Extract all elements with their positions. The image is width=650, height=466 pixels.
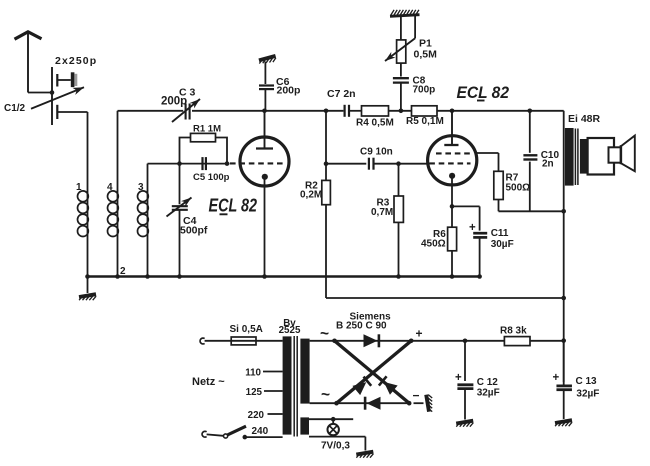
svg-text:7V/0,3: 7V/0,3 (321, 440, 350, 451)
svg-text:0,7M: 0,7M (371, 207, 393, 218)
svg-text:0,2M: 0,2M (300, 190, 322, 201)
svg-text:C1/2: C1/2 (4, 103, 26, 114)
svg-text:+: + (469, 222, 476, 234)
svg-text:200p: 200p (277, 85, 301, 97)
svg-text:32µF: 32µF (477, 388, 500, 399)
svg-text:0,5M: 0,5M (414, 49, 438, 61)
svg-text:Ei 48R: Ei 48R (568, 113, 601, 125)
svg-text:R1 1M: R1 1M (193, 124, 221, 135)
svg-text:~: ~ (320, 326, 329, 343)
svg-text:2525: 2525 (279, 325, 301, 336)
svg-text:1: 1 (76, 182, 82, 193)
svg-text:32µF: 32µF (576, 389, 599, 400)
svg-text:B 250 C 90: B 250 C 90 (336, 320, 387, 331)
svg-text:R4 0,5M: R4 0,5M (356, 118, 394, 129)
svg-text:~: ~ (321, 387, 330, 404)
svg-text:220: 220 (248, 410, 265, 421)
svg-text:+: + (455, 372, 462, 384)
svg-text:ECL 82: ECL 82 (457, 83, 510, 102)
svg-text:C 13: C 13 (576, 376, 598, 387)
svg-text:−: − (413, 389, 420, 403)
svg-text:700p: 700p (413, 85, 436, 96)
svg-text:Si 0,5A: Si 0,5A (230, 324, 263, 335)
svg-text:Netz ~: Netz ~ (192, 376, 225, 388)
svg-text:C7 2n: C7 2n (327, 88, 356, 100)
svg-text:4: 4 (107, 182, 113, 193)
svg-text:C5 100p: C5 100p (193, 172, 230, 183)
svg-text:500Ω: 500Ω (506, 182, 531, 193)
svg-text:+: + (416, 327, 423, 341)
svg-text:R8 3k: R8 3k (500, 326, 527, 337)
svg-text:500pf: 500pf (180, 225, 208, 237)
svg-text:R5 0,1M: R5 0,1M (406, 116, 444, 127)
svg-text:2n: 2n (542, 159, 554, 170)
svg-text:30µF: 30µF (491, 239, 514, 250)
svg-text:C 12: C 12 (477, 377, 499, 388)
svg-text:2x250p: 2x250p (55, 55, 97, 67)
svg-text:200p: 200p (161, 96, 187, 108)
svg-text:125: 125 (246, 387, 263, 398)
svg-text:110: 110 (245, 368, 261, 379)
svg-text:C9 10n: C9 10n (360, 147, 393, 158)
svg-text:+: + (553, 372, 560, 384)
svg-text:3: 3 (138, 182, 144, 193)
svg-text:C11: C11 (491, 228, 509, 239)
svg-text:240: 240 (252, 426, 269, 437)
svg-text:450Ω: 450Ω (421, 238, 446, 249)
svg-text:ECL 82: ECL 82 (209, 195, 258, 216)
